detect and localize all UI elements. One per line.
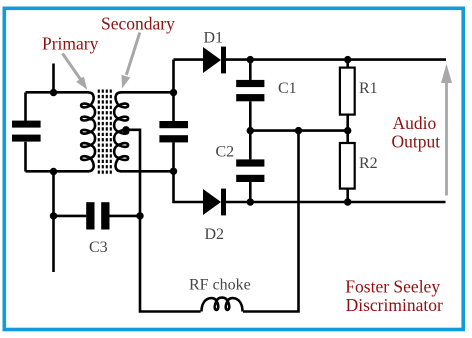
svg-text:R1: R1 [359,80,378,97]
svg-text:R2: R2 [359,155,378,172]
svg-text:Output: Output [392,131,441,151]
svg-text:D2: D2 [205,226,225,243]
svg-text:RF choke: RF choke [189,276,251,293]
svg-text:C2: C2 [216,143,235,160]
svg-text:Foster Seeley: Foster Seeley [345,276,440,296]
svg-text:Secondary: Secondary [101,13,175,33]
svg-text:C1: C1 [278,80,297,97]
svg-text:Audio: Audio [393,113,437,133]
svg-text:C3: C3 [89,239,108,256]
svg-text:Discriminator: Discriminator [346,295,443,315]
svg-text:D1: D1 [204,30,224,47]
svg-text:Primary: Primary [42,33,99,53]
